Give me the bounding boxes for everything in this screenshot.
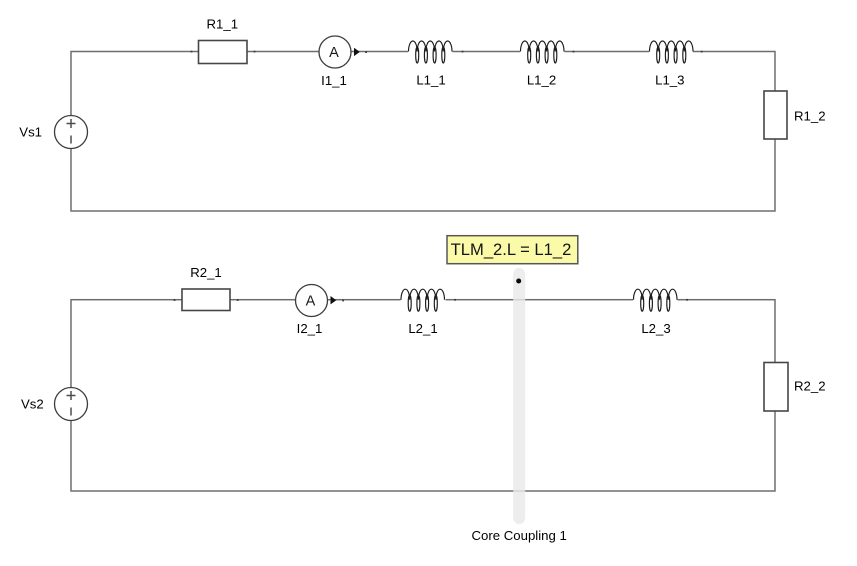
svg-text:L2_3: L2_3 [641,321,670,336]
svg-text:Vs1: Vs1 [19,124,42,139]
svg-text:R1_2: R1_2 [794,108,826,123]
svg-text:L1_2: L1_2 [527,73,556,88]
svg-text:I1_1: I1_1 [321,73,347,88]
svg-text:TLM_2.L = L1_2: TLM_2.L = L1_2 [451,240,572,259]
svg-text:A: A [306,294,316,310]
svg-text:L1_1: L1_1 [416,73,445,88]
svg-text:R2_2: R2_2 [794,378,826,393]
svg-text:L2_1: L2_1 [408,321,437,336]
svg-text:I2_1: I2_1 [297,321,323,336]
svg-text:A: A [329,45,339,61]
svg-text:L1_3: L1_3 [655,73,684,88]
svg-text:Core Coupling 1: Core Coupling 1 [472,528,567,543]
svg-text:R2_1: R2_1 [190,265,222,280]
svg-text:Vs2: Vs2 [21,396,44,411]
svg-text:R1_1: R1_1 [207,17,239,32]
